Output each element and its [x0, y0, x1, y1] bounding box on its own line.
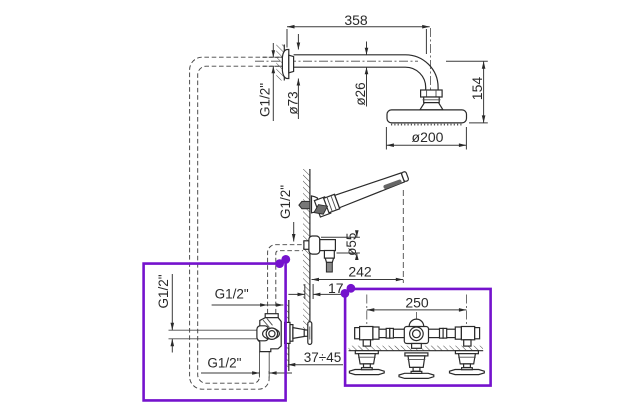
head cone connector [420, 103, 443, 110]
purple highlight rectangle 1 (concealed valve zone) [144, 255, 291, 400]
outlet elbow wall nub [304, 241, 310, 250]
ball joint [424, 97, 440, 103]
valve escutcheon and stem through wall [285, 322, 308, 343]
shower arm tube [294, 55, 439, 90]
dimension 250 [367, 295, 467, 333]
hand shower wall flange [312, 196, 318, 213]
center drop assembly [399, 353, 434, 379]
deck hatch band [349, 346, 483, 351]
svg-text:37÷45: 37÷45 [304, 350, 341, 365]
hose nipple under holder [314, 205, 328, 215]
wall line and hatch at hand shower [303, 169, 310, 329]
dimension G1/2 top (arm thread) [258, 43, 276, 121]
valve left port lines [169, 329, 259, 331]
left tee nut [373, 327, 379, 339]
wall line and hatch at valve [285, 300, 289, 371]
right end cap [475, 328, 480, 339]
dimension 154 [446, 61, 488, 123]
dimension diameter 73 (flange) [286, 34, 301, 119]
centerline of arm drop [430, 28, 432, 122]
svg-text:G1/2": G1/2" [278, 185, 293, 219]
svg-text:G1/2": G1/2" [258, 83, 273, 117]
svg-text:154: 154 [469, 77, 485, 101]
dimension G1/2 left [156, 274, 174, 353]
svg-text:G1/2": G1/2" [156, 274, 171, 308]
dimension diameter 200 [386, 127, 466, 150]
outlet elbow flange [309, 236, 320, 254]
flange cone [289, 55, 294, 73]
hand shower wall nipple [299, 201, 310, 208]
right tee [461, 327, 474, 347]
shower arm wall flange [282, 50, 288, 79]
coupling left [386, 328, 393, 338]
dimension diameter 55 [321, 230, 360, 260]
svg-text:ø55: ø55 [344, 233, 359, 256]
outlet elbow cone [325, 258, 333, 262]
dimension 358 [287, 12, 430, 54]
shower head disc [387, 110, 467, 123]
svg-text:358: 358 [344, 12, 368, 28]
right tee nut [455, 327, 461, 339]
purple highlight rectangle 2 (deck manifold zone) [341, 284, 491, 386]
dimension 242 [312, 190, 404, 283]
hidden nipple dashed lines [263, 56, 283, 58]
outlet elbow body [320, 240, 336, 251]
coupling right [440, 328, 447, 338]
left end cap [355, 328, 360, 339]
spray face dotted line [391, 124, 463, 126]
left tee [360, 327, 373, 347]
dashed supply pipe inner line [198, 66, 282, 383]
dimension G1/2 hand shower leader [278, 185, 296, 242]
svg-text:G1/2": G1/2" [207, 355, 241, 370]
valve cross handle [308, 322, 312, 345]
dimension diameter 26 (arm tube) [353, 42, 368, 107]
dashed supply pipe outer line [190, 57, 282, 389]
svg-text:ø26: ø26 [353, 82, 368, 105]
outlet elbow downspout [324, 251, 334, 259]
svg-text:242: 242 [348, 264, 372, 280]
dimension 37 to 45 [288, 350, 343, 366]
centerline of shower arm [255, 60, 418, 62]
manifold pipe [355, 329, 478, 337]
concealed stop valve body [257, 314, 281, 352]
hand shower holder and wand [314, 168, 410, 217]
wall hatch at shower arm flange [276, 45, 284, 81]
connector nut [421, 90, 443, 97]
svg-text:250: 250 [405, 295, 429, 311]
dimension 17 [288, 280, 345, 299]
center body centerline [415, 312, 417, 322]
svg-text:ø200: ø200 [412, 129, 444, 145]
svg-text:G1/2": G1/2" [215, 287, 249, 302]
svg-text:ø73: ø73 [286, 91, 301, 114]
left drop assembly [349, 351, 384, 375]
dimension G1/2 bottom [201, 352, 292, 378]
center valve body [404, 319, 428, 348]
right drop assembly [450, 351, 485, 375]
outlet elbow thread [326, 262, 332, 272]
dimension G1/2 middle [212, 287, 284, 307]
dashed riser pipe valve to outlet [268, 245, 304, 314]
deck line [349, 350, 484, 352]
